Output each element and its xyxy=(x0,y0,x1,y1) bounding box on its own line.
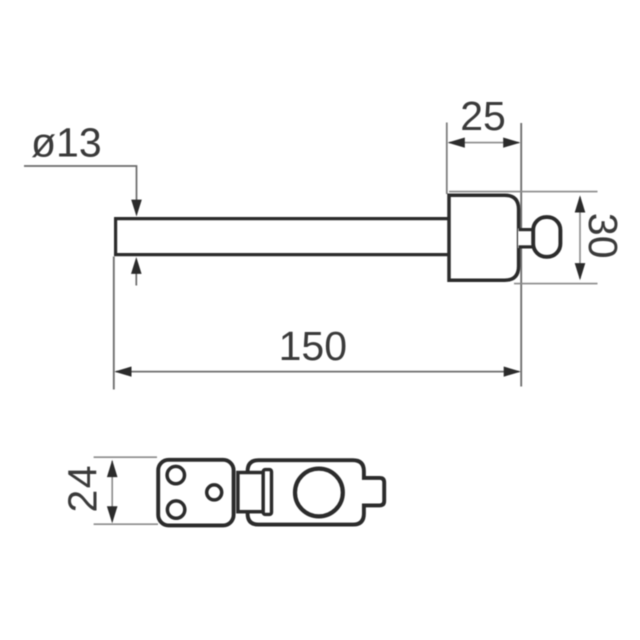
hole: bottom-left screw hole xyxy=(167,501,184,518)
arrow: 24 dim bottom xyxy=(107,506,118,523)
wire: 24 dimension line xyxy=(111,461,113,521)
arrow: 30 dim top xyxy=(575,195,586,212)
clamp flange bar (top view) xyxy=(263,470,271,515)
svg-text:ø13: ø13 xyxy=(31,120,102,166)
wire: ø13 lower arrow tail xyxy=(135,270,137,286)
wire: ø13 leader line xyxy=(24,166,137,213)
main plate: bolt body with right tab (top view) xyxy=(248,460,385,524)
svg-text:30: 30 xyxy=(580,213,626,259)
svg-text:24: 24 xyxy=(60,464,106,513)
arrow: 150 dim left xyxy=(114,367,131,377)
arrow: ø13 at rod top xyxy=(131,200,142,217)
wire: 24 dim top extension line xyxy=(94,456,157,458)
wire: 24 dim bottom extension line xyxy=(94,523,158,525)
wire: extension line left of 25 dim xyxy=(446,123,448,195)
arrow: 30 dim bottom xyxy=(575,263,586,280)
knob neck (side view) xyxy=(518,228,535,248)
bolt hole circle (top view) xyxy=(295,469,343,517)
wire: 25 dimension line xyxy=(449,142,519,144)
arrow: 25 dim right xyxy=(503,138,520,148)
arrow: 25 dim left xyxy=(448,138,465,148)
svg-text:150: 150 xyxy=(279,323,347,369)
wire: shared extension line right of 25/150 dims xyxy=(520,123,522,387)
left plate: strike plate (top view) xyxy=(158,460,233,526)
arrow: 150 dim right xyxy=(504,367,521,377)
wire: 30 dim bottom extension line xyxy=(514,283,598,285)
wire: 30 dim top extension line xyxy=(449,191,598,193)
rod: bolt shaft (side view) xyxy=(114,217,449,256)
hole: top-left screw hole xyxy=(167,466,184,483)
arrow: ø13 at rod bottom xyxy=(131,257,142,274)
wire: 30 dimension line xyxy=(579,197,581,279)
block: bolt housing (side view) xyxy=(449,195,519,280)
wire: 150 dim left extension line xyxy=(113,257,115,390)
arrow: 24 dim top xyxy=(107,460,118,477)
svg-text:25: 25 xyxy=(460,93,506,139)
hole: middle screw hole xyxy=(207,485,222,500)
knob: thumb turn (side view) xyxy=(533,217,560,257)
clamp bracket (top view) xyxy=(238,473,263,512)
wire: 150 dimension line xyxy=(116,371,519,373)
